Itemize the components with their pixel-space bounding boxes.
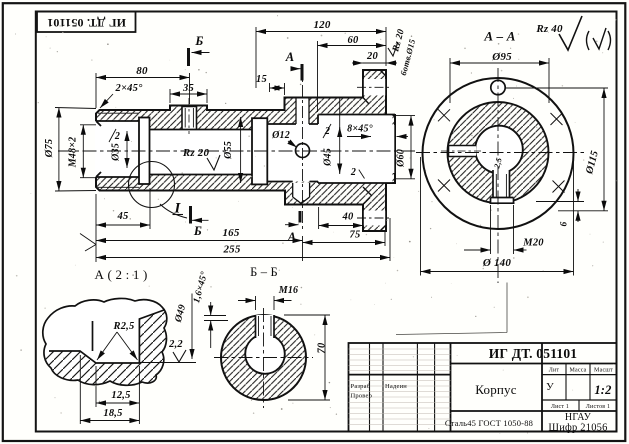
svg-text:Листов 1: Листов 1	[586, 404, 610, 410]
svg-text:120: 120	[313, 19, 330, 31]
svg-text:45: 45	[117, 211, 129, 222]
svg-text:35: 35	[182, 83, 194, 94]
svg-text:2×45°: 2×45°	[115, 83, 144, 94]
svg-text:2: 2	[114, 131, 120, 142]
svg-text:А ( 2 : 1 ): А ( 2 : 1 )	[94, 267, 147, 282]
svg-text:Лист 1: Лист 1	[551, 404, 569, 410]
svg-text:М48×2: М48×2	[68, 137, 79, 169]
svg-text:R2,5: R2,5	[113, 321, 135, 332]
svg-text:ИГ ДТ. 051101: ИГ ДТ. 051101	[47, 16, 126, 30]
svg-text:75: 75	[350, 230, 361, 241]
svg-text:Б – Б: Б – Б	[250, 265, 278, 279]
svg-text:Лит: Лит	[549, 368, 560, 374]
svg-text:А: А	[287, 230, 297, 244]
svg-text:ИГ ДТ. 051101: ИГ ДТ. 051101	[489, 346, 578, 361]
svg-text:2: 2	[324, 126, 330, 137]
svg-text:Сталь45 ГОСТ 1050-88: Сталь45 ГОСТ 1050-88	[445, 418, 533, 428]
svg-text:А: А	[285, 50, 295, 64]
svg-text:2: 2	[350, 167, 356, 178]
svg-text:Ø55: Ø55	[223, 141, 234, 160]
svg-text:40: 40	[342, 212, 354, 223]
svg-text:Ø75: Ø75	[44, 139, 55, 159]
svg-text:Б: Б	[193, 224, 202, 238]
svg-text:20: 20	[366, 51, 378, 62]
svg-text:А – А: А – А	[483, 29, 515, 44]
svg-text:Надеин: Надеин	[385, 383, 407, 390]
svg-text:Ø60: Ø60	[396, 149, 407, 168]
svg-text:80: 80	[136, 65, 148, 77]
svg-text:2,2: 2,2	[168, 339, 183, 350]
svg-text:12,5: 12,5	[111, 390, 130, 401]
svg-text:Rz 20: Rz 20	[182, 147, 210, 159]
svg-text:60: 60	[348, 35, 359, 46]
svg-text:Ø95: Ø95	[491, 51, 512, 63]
svg-text:165: 165	[222, 227, 239, 239]
svg-text:255: 255	[222, 244, 240, 256]
svg-text:8×45°: 8×45°	[347, 124, 373, 135]
svg-text:6: 6	[560, 221, 570, 226]
svg-text:НГАУ: НГАУ	[565, 412, 592, 423]
svg-text:Rz 40: Rz 40	[535, 23, 563, 35]
svg-text:М20: М20	[522, 238, 544, 249]
svg-text:М16: М16	[278, 285, 299, 296]
svg-text:Ø 140: Ø 140	[482, 257, 511, 269]
svg-text:Б: Б	[194, 34, 203, 48]
svg-text:1:2: 1:2	[594, 383, 611, 397]
svg-text:15: 15	[256, 74, 267, 85]
svg-text:70: 70	[317, 342, 328, 353]
svg-text:Масса: Масса	[569, 368, 586, 374]
svg-text:У: У	[546, 381, 554, 393]
svg-text:Ø12: Ø12	[271, 130, 290, 141]
svg-text:Корпус: Корпус	[475, 382, 516, 397]
svg-text:Провер: Провер	[351, 393, 373, 400]
svg-text:18,5: 18,5	[103, 408, 122, 419]
svg-text:Масшт: Масшт	[594, 368, 613, 374]
svg-text:Ø35: Ø35	[111, 143, 122, 162]
svg-text:Шифр 21056: Шифр 21056	[548, 423, 607, 434]
svg-text:I: I	[173, 201, 181, 217]
svg-text:Разраб: Разраб	[351, 383, 371, 390]
svg-text:Ø45: Ø45	[323, 148, 334, 167]
